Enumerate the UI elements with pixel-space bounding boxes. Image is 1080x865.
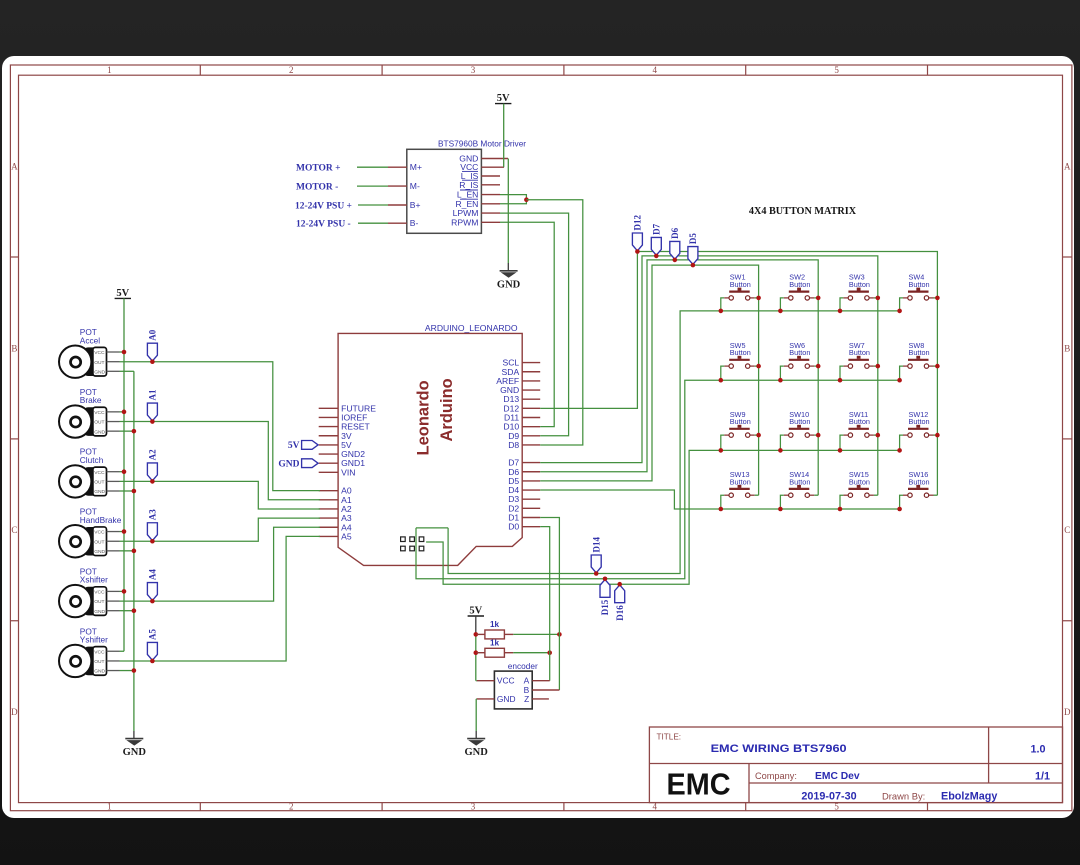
junction SW1 col (756, 296, 761, 301)
svg-text:VCC: VCC (94, 590, 105, 596)
net tag D16 (615, 585, 625, 621)
svg-text:OUT: OUT (94, 480, 104, 486)
svg-text:12-24V PSU -: 12-24V PSU - (296, 220, 351, 230)
junction SW7 row (838, 378, 843, 383)
junction SW1 row (719, 309, 724, 314)
potentiometer POT Clutch (59, 447, 120, 498)
svg-text:Brake: Brake (80, 395, 102, 405)
svg-text:1: 1 (107, 65, 112, 75)
svg-text:Button: Button (849, 280, 870, 289)
junction VCC pot1 (122, 350, 127, 355)
svg-text:4X4 BUTTON MATRIX: 4X4 BUTTON MATRIX (749, 206, 857, 217)
junction SW16 row (897, 507, 902, 512)
junction SW4 row (897, 309, 902, 314)
svg-text:1/1: 1/1 (1035, 771, 1050, 783)
potentiometer POT Accel (59, 327, 120, 378)
ground symbol (encoder) (465, 739, 489, 759)
svg-text:B: B (11, 343, 17, 353)
svg-text:R_IS: R_IS (459, 180, 478, 190)
switch SW1 (721, 273, 759, 311)
junction SW14 row (778, 507, 783, 512)
wire EN to D8 (526, 200, 582, 445)
svg-text:1k: 1k (490, 639, 500, 648)
svg-text:C: C (1064, 525, 1070, 535)
net tag A3 (147, 509, 157, 541)
svg-text:OUT: OUT (94, 420, 104, 426)
svg-text:A4: A4 (148, 569, 158, 580)
junction GND pot2 (132, 429, 137, 434)
potentiometer POT Xshifter (59, 566, 120, 617)
net tag D12 (632, 215, 642, 251)
wire PSU- to B- (358, 222, 388, 224)
junction SW6 col (816, 364, 821, 369)
svg-text:Button: Button (849, 477, 870, 486)
svg-text:A0: A0 (148, 329, 158, 340)
svg-text:VCC: VCC (94, 410, 105, 416)
svg-text:GND: GND (94, 609, 105, 615)
svg-text:Button: Button (730, 348, 751, 357)
junction SW4 col (935, 296, 940, 301)
wire encoder GND down (475, 699, 478, 739)
wire D0 net to encoder A (540, 527, 550, 681)
switch SW13 (721, 470, 759, 509)
wire GND pot6 (120, 670, 134, 672)
wire GND pot1 (120, 370, 134, 372)
wire D7 net (col3) (540, 256, 878, 495)
wire D5 net (col1) (540, 265, 758, 495)
junction GND pot5 (132, 608, 137, 613)
U2 left pins (319, 403, 377, 541)
U1 right pins GND VCC L_IS R_IS L_EN R_EN LPWM RPWM (451, 154, 508, 228)
net tag D15 (600, 580, 610, 616)
junction VCC pot5 (122, 589, 127, 594)
svg-text:Button: Button (789, 477, 810, 486)
svg-text:Button: Button (849, 348, 870, 357)
wire R_EN (500, 200, 526, 204)
junction D6 tag (673, 258, 678, 263)
svg-text:RPWM: RPWM (451, 217, 478, 227)
switch SW15 (840, 470, 878, 509)
svg-text:EMC: EMC (667, 766, 731, 801)
svg-text:Accel: Accel (80, 335, 100, 345)
svg-text:EbolzMagy: EbolzMagy (941, 791, 997, 803)
junction SW10 row (778, 448, 783, 453)
supply tag 5V at U2 (288, 441, 318, 452)
junction SW3 row (838, 309, 843, 314)
svg-text:Drawn By:: Drawn By: (882, 791, 925, 802)
svg-text:Clutch: Clutch (80, 455, 104, 465)
net tag A0 (147, 329, 157, 361)
svg-text:Button: Button (730, 477, 751, 486)
U3 pins VCC GND A B Z (477, 676, 560, 704)
junction D12 tag (635, 249, 640, 254)
svg-text:Button: Button (730, 417, 751, 426)
net tag A2 (147, 449, 157, 481)
switch SW2 (780, 273, 818, 311)
resistor R2 1k (477, 639, 514, 658)
svg-text:A: A (11, 162, 18, 172)
junction SW8 col (935, 364, 940, 369)
ground symbol (below U1) (497, 271, 521, 291)
wire 5V to U1 VCC (503, 104, 505, 168)
wire VCC pot6 (120, 650, 125, 652)
svg-text:VCC: VCC (94, 350, 105, 356)
svg-text:Button: Button (789, 348, 810, 357)
junction GND pot4 (132, 549, 137, 554)
supply symbol 5V (pots) (115, 288, 131, 299)
svg-text:B: B (1064, 343, 1070, 353)
svg-text:OUT: OUT (94, 599, 104, 605)
svg-text:Leonardo: Leonardo (415, 380, 433, 455)
junction SW9 row (719, 448, 724, 453)
svg-text:A2: A2 (148, 449, 158, 460)
net tag A4 (147, 569, 157, 601)
junction A5 tag (150, 659, 155, 664)
junction D5 tag (691, 263, 696, 268)
wire RPWM to D10 (500, 222, 554, 426)
wire OUT pot6 to A5 (120, 536, 321, 661)
wire LPWM to D9 (500, 213, 569, 436)
junction SW5 row (719, 378, 724, 383)
IC U3 encoder box (494, 661, 538, 709)
svg-text:D12: D12 (633, 215, 643, 231)
svg-text:VIN: VIN (341, 467, 355, 477)
U1 left pins M+ M- B+ B- (388, 162, 422, 228)
svg-text:3: 3 (471, 65, 476, 75)
svg-text:A: A (1064, 162, 1071, 172)
svg-text:D: D (1064, 707, 1071, 717)
wire pot 5V bus (123, 298, 125, 651)
junction R1 left (474, 632, 479, 637)
wire matrix row 1 + bus (448, 311, 899, 574)
supply tag GND at U2 (278, 459, 318, 470)
svg-text:M-: M- (410, 181, 420, 191)
junction SW2 row (778, 309, 783, 314)
svg-text:5: 5 (834, 65, 839, 75)
junction L_EN/R_EN (524, 197, 529, 202)
wire R1 to D1 vertical (513, 633, 559, 635)
svg-text:D7: D7 (652, 223, 662, 234)
svg-text:A5: A5 (341, 531, 352, 541)
svg-text:Button: Button (909, 280, 930, 289)
svg-text:1: 1 (107, 802, 112, 812)
supply symbol 5V (encoder) (468, 606, 484, 617)
junction SW8 row (897, 378, 902, 383)
wire U1 GND down to ground (507, 159, 509, 271)
svg-text:VCC: VCC (497, 676, 515, 686)
svg-text:3: 3 (471, 802, 476, 812)
net tag D6 (670, 227, 680, 259)
svg-text:Button: Button (789, 417, 810, 426)
wire R2 to D0 vertical (513, 652, 549, 654)
wire D6 net (col2) (540, 260, 818, 495)
svg-text:1k: 1k (490, 620, 500, 629)
switch SW7 (840, 341, 878, 380)
supply symbol 5V (top) (495, 93, 511, 104)
svg-text:2: 2 (289, 65, 294, 75)
U2 right pins (496, 358, 540, 532)
svg-text:TITLE:: TITLE: (657, 733, 682, 742)
svg-text:GND: GND (94, 489, 105, 495)
junction SW11 col (876, 433, 881, 438)
svg-text:OUT: OUT (94, 539, 104, 545)
svg-text:2019-07-30: 2019-07-30 (801, 791, 856, 803)
switch SW14 (780, 470, 818, 509)
svg-text:Arduino: Arduino (438, 378, 456, 441)
svg-text:D15: D15 (600, 599, 610, 615)
svg-text:Button: Button (789, 280, 810, 289)
svg-text:Button: Button (730, 280, 751, 289)
potentiometer POT HandBrake (59, 507, 122, 558)
wire GND pot2 (120, 430, 134, 432)
wire VCC pot5 (120, 590, 125, 592)
wire VCC pot1 (120, 351, 125, 353)
svg-text:Button: Button (909, 348, 930, 357)
svg-text:EMC Dev: EMC Dev (815, 771, 860, 782)
svg-text:GND: GND (497, 694, 516, 704)
wire D1 net to encoder B (540, 518, 559, 691)
svg-text:GND: GND (123, 747, 147, 758)
net tag A5 (147, 628, 157, 660)
junction GND pot6 (132, 668, 137, 673)
svg-text:Button: Button (849, 417, 870, 426)
net tag D14 (591, 537, 601, 573)
junction SW5 col (756, 364, 761, 369)
svg-text:D8: D8 (508, 440, 519, 450)
wire 5V down to resistors (475, 616, 477, 681)
junction SW9 col (756, 433, 761, 438)
wire pot GND bus to ground (133, 731, 135, 739)
switch SW9 (721, 410, 759, 451)
switch SW16 (900, 470, 938, 509)
wire encoder VCC from 5V (475, 680, 478, 682)
title block texts (657, 733, 1051, 803)
U2 jumper pads (3x2 squares) (401, 537, 424, 551)
wire matrix row 2 + bus (416, 380, 900, 579)
svg-text:encoder: encoder (508, 661, 538, 671)
junction A4 tag (150, 599, 155, 604)
junction R2/D0 (547, 650, 552, 655)
junction R1/D1 (557, 632, 562, 637)
wire VCC pot4 (120, 531, 125, 533)
svg-text:4: 4 (653, 65, 658, 75)
svg-text:5V: 5V (469, 606, 482, 617)
svg-text:A3: A3 (148, 509, 158, 520)
svg-text:GND: GND (94, 429, 105, 435)
svg-text:A5: A5 (148, 628, 158, 639)
potentiometer POT Brake (59, 387, 120, 438)
junction R2 left (474, 650, 479, 655)
svg-text:VCC: VCC (94, 470, 105, 476)
switch SW5 (721, 341, 759, 380)
svg-text:EMC WIRING BTS7960: EMC WIRING BTS7960 (711, 743, 847, 755)
wire MOTOR- to M- (357, 185, 388, 187)
switch SW8 (900, 341, 938, 380)
switch SW6 (780, 341, 818, 380)
svg-text:MOTOR +: MOTOR + (296, 164, 341, 174)
wire VCC pot3 (120, 471, 125, 473)
svg-text:GND: GND (278, 459, 299, 469)
junction SW11 row (838, 448, 843, 453)
switch SW12 (900, 410, 938, 451)
wire GND pot4 (120, 550, 134, 552)
IC U2 Arduino Leonardo box (338, 323, 522, 565)
wire L_EN (500, 195, 526, 200)
wire D4 net / matrix row 4 (540, 490, 899, 509)
svg-text:1.0: 1.0 (1030, 744, 1045, 756)
svg-text:M+: M+ (410, 162, 422, 172)
junction VCC pot2 (122, 410, 127, 415)
frame column numbers (107, 65, 839, 811)
svg-text:MOTOR -: MOTOR - (296, 182, 338, 192)
svg-text:D16: D16 (615, 605, 625, 621)
wire bus bridge (416, 527, 448, 529)
junction SW6 row (778, 378, 783, 383)
svg-text:2: 2 (289, 802, 294, 812)
wire D12 net (col4) (540, 252, 937, 496)
svg-text:Button: Button (909, 417, 930, 426)
svg-text:B+: B+ (410, 200, 421, 210)
svg-text:GND: GND (94, 669, 105, 675)
wire GND pot5 (120, 610, 134, 612)
svg-text:OUT: OUT (94, 360, 104, 366)
wire GND pot3 (120, 490, 134, 492)
resistor R1 1k (477, 620, 514, 639)
svg-text:GND: GND (497, 279, 521, 290)
net tag A1 (147, 389, 157, 421)
svg-text:GND: GND (94, 549, 105, 555)
svg-text:5V: 5V (116, 288, 129, 299)
svg-text:ARDUINO_LEONARDO: ARDUINO_LEONARDO (425, 323, 518, 333)
wire OUT pot5 to A4 (120, 527, 321, 601)
wire pot GND bus (133, 371, 135, 731)
svg-text:Company:: Company: (755, 771, 797, 781)
junction SW10 col (816, 433, 821, 438)
svg-text:C: C (11, 525, 17, 535)
wire OUT pot1 to A0 (120, 362, 321, 491)
junction D7 tag (654, 254, 659, 259)
switch SW10 (780, 410, 818, 451)
net tag D7 (651, 223, 661, 255)
switch SW11 (840, 410, 878, 451)
svg-text:GND: GND (465, 747, 489, 758)
IC U1 BTS7960B motor driver box (407, 138, 527, 233)
junction A3 tag (150, 539, 155, 544)
junction SW7 col (876, 364, 881, 369)
wire MOTOR+ to M+ (357, 166, 388, 168)
junction A1 tag (150, 419, 155, 424)
svg-text:A1: A1 (148, 389, 158, 400)
svg-text:GND: GND (94, 369, 105, 375)
svg-text:VCC: VCC (94, 649, 105, 655)
switch SW3 (840, 273, 878, 311)
svg-text:VCC: VCC (94, 530, 105, 536)
junction VCC pot3 (122, 469, 127, 474)
wire PSU+ to B+ (358, 204, 388, 206)
svg-text:BTS7960B Motor Driver: BTS7960B Motor Driver (438, 138, 526, 148)
wire OUT pot4 to A3 (120, 518, 321, 541)
svg-text:B-: B- (410, 218, 419, 228)
ground symbol (pots) (123, 739, 147, 759)
wire VCC pot2 (120, 411, 125, 413)
switch SW4 (900, 273, 938, 311)
svg-text:5V: 5V (497, 93, 510, 104)
svg-text:12-24V PSU +: 12-24V PSU + (295, 201, 352, 211)
svg-text:OUT: OUT (94, 659, 104, 665)
frame row letters (11, 162, 1071, 718)
svg-text:Yshifter: Yshifter (80, 635, 108, 645)
svg-text:D5: D5 (688, 233, 698, 244)
junction GND pot3 (132, 489, 137, 494)
svg-text:D: D (11, 707, 18, 717)
potentiometer POT Yshifter (59, 626, 120, 677)
net tag D5 (688, 233, 698, 265)
junction SW3 col (876, 296, 881, 301)
junction SW2 col (816, 296, 821, 301)
wire OUT pot2 to A1 (120, 422, 321, 500)
wire OUT pot3 to A2 (120, 481, 321, 509)
junction SW12 row (897, 448, 902, 453)
junction A2 tag (150, 479, 155, 484)
wire matrix row 3 + bus from pad (426, 450, 899, 584)
junction VCC pot4 (122, 529, 127, 534)
svg-text:HandBrake: HandBrake (80, 515, 122, 525)
svg-text:Z: Z (524, 694, 529, 704)
junction SW12 col (935, 433, 940, 438)
svg-text:Button: Button (909, 477, 930, 486)
junction SW13 row (719, 507, 724, 512)
title block (649, 727, 1062, 803)
svg-text:5V: 5V (288, 441, 300, 451)
svg-text:D6: D6 (670, 227, 680, 238)
svg-text:D14: D14 (591, 537, 601, 553)
junction SW15 row (838, 507, 843, 512)
svg-text:Xshifter: Xshifter (80, 575, 108, 585)
junction A0 tag (150, 359, 155, 364)
svg-text:D0: D0 (508, 522, 519, 532)
